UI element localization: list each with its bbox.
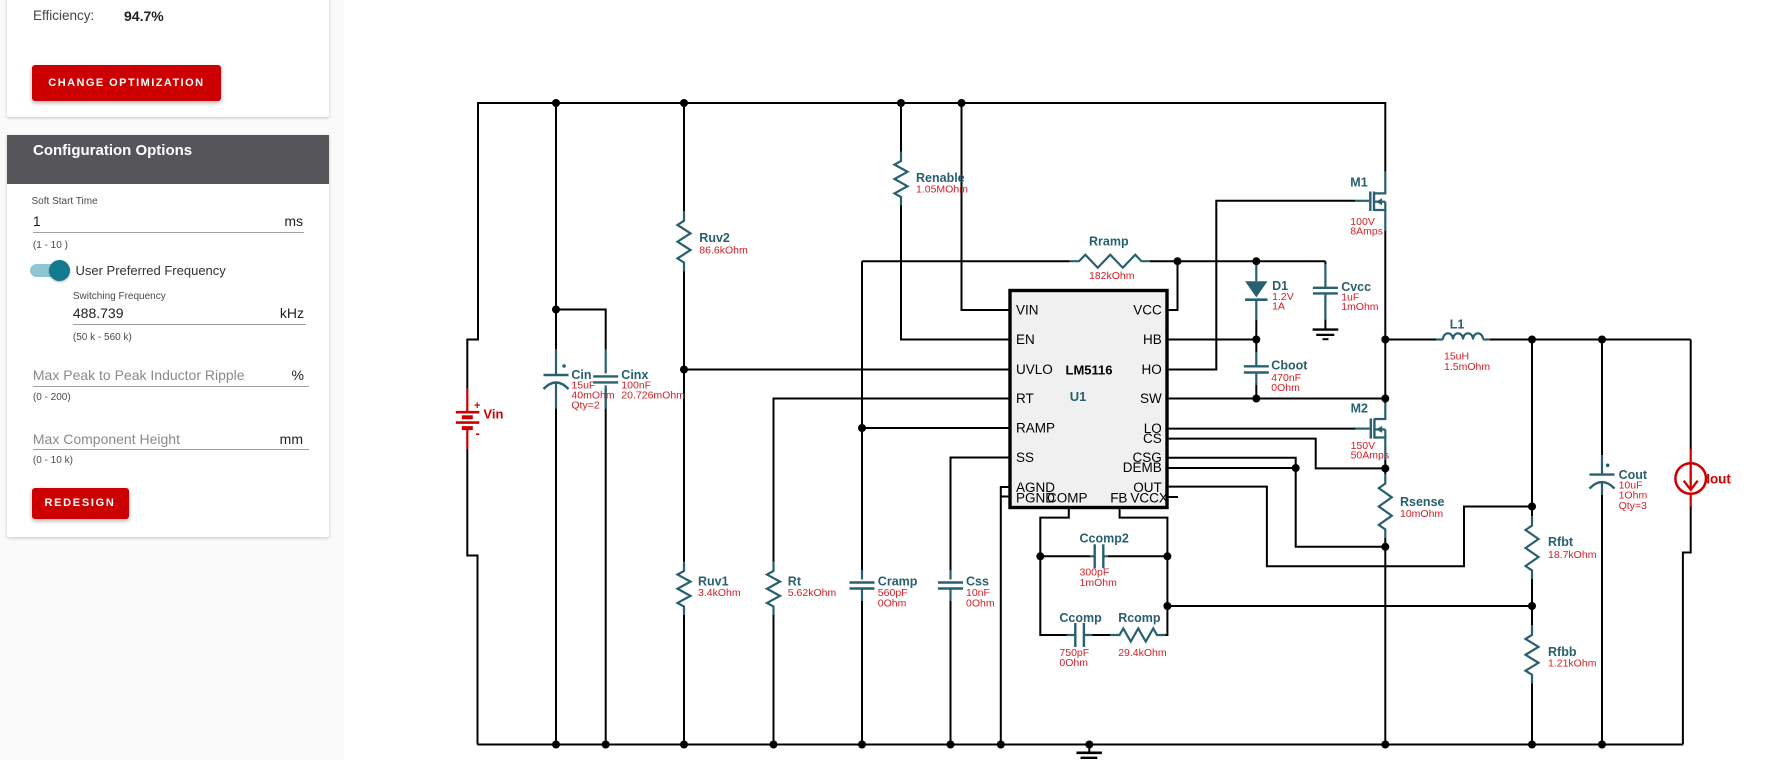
- transistor M1 (high-side NMOS): [1375, 172, 1386, 194]
- svg-text:-: -: [476, 426, 480, 441]
- wire: Cvcc stem: [1324, 261, 1326, 266]
- junction Vin rail / VIN pin: [958, 99, 966, 107]
- capacitor Ccomp2: [1090, 555, 1095, 557]
- resistor Rfbt: [1526, 516, 1539, 579]
- wire: FB pin down-right: [1120, 508, 1168, 607]
- wire: left rail below Vin to ground rail: [467, 449, 477, 745]
- wire: CS net: [1167, 439, 1385, 469]
- wire: Rfbb bottom: [1531, 683, 1533, 744]
- svg-text:Cboot: Cboot: [1271, 359, 1308, 373]
- transistor M2 (low-side NMOS): [1374, 403, 1385, 419]
- svg-text:DEMB: DEMB: [1123, 460, 1162, 475]
- resistor Rsense: [1379, 474, 1392, 538]
- junction Vin rail / Renable: [897, 99, 905, 107]
- wire: CS node to Rsense: [1384, 468, 1386, 474]
- resistor Ruv1: [678, 562, 691, 616]
- svg-text:1.05MOhm: 1.05MOhm: [916, 184, 968, 196]
- capacitor Ccomp: [1067, 634, 1076, 636]
- svg-text:M2: M2: [1351, 401, 1368, 415]
- load Iout (current source): [1690, 449, 1692, 464]
- wire: COMP pin down-left: [1040, 508, 1069, 636]
- wire: Rfbt bottom / Rfbb top: [1531, 579, 1533, 625]
- junction gnd rail / Cin: [552, 741, 560, 749]
- wire: Vin top rail + left rail: [467, 103, 1385, 389]
- junction FB / Rcomp: [1163, 602, 1171, 610]
- svg-text:1.21kOhm: 1.21kOhm: [1548, 658, 1597, 670]
- svg-text:COMP: COMP: [1047, 491, 1088, 506]
- wire: Vout node to SW node (M2 drain): [1384, 340, 1386, 399]
- junction HB node: [1252, 336, 1260, 344]
- wire: Vout rail left of L1: [1385, 339, 1436, 341]
- svg-text:Iout: Iout: [1706, 472, 1731, 487]
- svg-text:20.726mOhm: 20.726mOhm: [621, 390, 685, 402]
- wire: bottom ground rail: [478, 744, 1683, 746]
- wire: Ccomp to Rcomp link: [1093, 634, 1111, 636]
- wire: Cinx branch jog: [556, 310, 606, 350]
- capacitor Cboot: [1255, 352, 1257, 366]
- diode D1: [1255, 261, 1257, 281]
- svg-text:Rsense: Rsense: [1400, 495, 1445, 509]
- wire: RT row + Rt branch: [774, 399, 1011, 562]
- svg-text:VCC: VCC: [1133, 302, 1162, 317]
- svg-text:EN: EN: [1016, 332, 1035, 347]
- wire: SS row + Css branch: [951, 458, 1011, 571]
- junction gnd rail / Css: [947, 741, 955, 749]
- svg-text:Vin: Vin: [483, 407, 503, 422]
- resistor Renable: [895, 152, 908, 206]
- wire: Iout branch bottom: [1683, 506, 1691, 745]
- efficiency card: [7, 0, 329, 117]
- wire: Ruv2/Ruv1 branch: [683, 103, 685, 211]
- svg-text:HO: HO: [1142, 362, 1162, 377]
- wire: Renable branch + EN row: [900, 103, 902, 152]
- svg-text:1mOhm: 1mOhm: [1080, 577, 1118, 589]
- junction gnd rail / Cinx: [602, 741, 610, 749]
- svg-text:RAMP: RAMP: [1016, 420, 1055, 435]
- capacitor Cin (polarized): [555, 350, 557, 375]
- svg-text:Ruv2: Ruv2: [699, 231, 730, 245]
- wire: Rfbt top vertical: [1531, 340, 1533, 517]
- resistor Rramp: [1070, 255, 1151, 268]
- wire: DEMB net: [1167, 467, 1296, 469]
- svg-text:Qty=3: Qty=3: [1619, 500, 1647, 512]
- wire: D1 cathode to HB node: [1255, 320, 1257, 340]
- junction Vin rail / Cin: [552, 99, 560, 107]
- svg-text:1A: 1A: [1272, 301, 1285, 313]
- svg-text:29.4kOhm: 29.4kOhm: [1118, 647, 1167, 659]
- junction FB / Rfbt / Rfbb: [1528, 602, 1536, 610]
- junction gnd rail / Rt: [770, 741, 778, 749]
- svg-text:RT: RT: [1016, 391, 1034, 406]
- wire: Cin branch: [555, 103, 557, 350]
- svg-text:VCCX: VCCX: [1130, 491, 1168, 506]
- wire: VCCX stub: [1167, 496, 1178, 498]
- svg-text:SS: SS: [1016, 450, 1034, 465]
- capacitor Css: [949, 570, 951, 580]
- junction Cin / Cinx: [552, 306, 560, 314]
- wire: Rramp rail: [862, 260, 1070, 262]
- junction gnd rail / Cout: [1598, 741, 1606, 749]
- svg-text:1mOhm: 1mOhm: [1341, 301, 1379, 313]
- capacitor Cvcc: [1324, 264, 1326, 288]
- svg-text:182kOhm: 182kOhm: [1089, 270, 1135, 282]
- capacitor Cinx: [605, 350, 607, 374]
- svg-text:18.7kOhm: 18.7kOhm: [1548, 549, 1597, 561]
- IC U1 LM5116: [1010, 291, 1167, 508]
- junction gnd rail / ground: [1085, 741, 1093, 749]
- junction FB / Ccomp2 right: [1163, 552, 1171, 560]
- wire: Cout column: [1601, 340, 1603, 456]
- svg-text:UVLO: UVLO: [1016, 362, 1053, 377]
- wire: SW row: [1167, 398, 1385, 400]
- wire: OUT net: [1167, 487, 1532, 567]
- svg-text:Rcomp: Rcomp: [1118, 611, 1161, 625]
- svg-text:Ccomp: Ccomp: [1059, 611, 1102, 625]
- svg-text:Rfbb: Rfbb: [1548, 645, 1577, 659]
- junction SW / Cboot: [1252, 395, 1260, 403]
- wire: HB row: [1167, 339, 1256, 341]
- wire: Cboot to SW node: [1255, 385, 1257, 399]
- svg-text:+: +: [474, 400, 480, 412]
- resistor Rcomp: [1110, 629, 1166, 642]
- wire: Rsense bottom to ground rail: [1384, 538, 1386, 745]
- svg-text:L1: L1: [1450, 317, 1465, 331]
- inductor L1: [1436, 338, 1443, 340]
- configuration options card: [7, 135, 329, 537]
- wire: Vout rail right of L1: [1490, 339, 1691, 341]
- wire: CSG/DEMB node to Rsense bottom: [1296, 468, 1386, 547]
- wire: UVLO row: [684, 369, 1010, 371]
- wire: M1 source to Vout node: [1384, 230, 1386, 339]
- svg-text:10mOhm: 10mOhm: [1400, 508, 1443, 520]
- wire: M2 source to CS node: [1384, 460, 1386, 468]
- wire: VCC branch: [1167, 261, 1178, 310]
- junction gnd rail / Rsense branch: [1381, 741, 1389, 749]
- svg-text:3.4kOhm: 3.4kOhm: [698, 587, 741, 599]
- svg-text:HB: HB: [1143, 332, 1162, 347]
- junction Vout / Rfbt: [1528, 336, 1536, 344]
- junction RAMP node: [858, 424, 866, 432]
- junction CSG-DEMB node: [1292, 464, 1300, 472]
- svg-text:1.5mOhm: 1.5mOhm: [1444, 361, 1490, 373]
- svg-text:U1: U1: [1070, 389, 1087, 404]
- junction Vout node / M1 source: [1381, 336, 1389, 344]
- junction Vout / Cout: [1598, 336, 1606, 344]
- wire: Rramp left vertical + Cramp branch: [861, 261, 863, 570]
- svg-text:5.62kOhm: 5.62kOhm: [788, 587, 837, 599]
- wire: HB node to Cboot: [1255, 340, 1257, 353]
- junction SW / M2 drain: [1381, 395, 1389, 403]
- svg-text:SW: SW: [1140, 391, 1162, 406]
- junction UVLO node: [680, 366, 688, 374]
- svg-text:Rramp: Rramp: [1089, 235, 1129, 249]
- wire: LO row to M2 gate: [1167, 428, 1356, 430]
- svg-text:8Amps: 8Amps: [1350, 226, 1383, 238]
- wire: VIN branch: [962, 103, 1011, 310]
- svg-text:Qty=2: Qty=2: [571, 399, 599, 411]
- wire: AGND/PGND bracket to ground: [1001, 487, 1010, 745]
- svg-text:FB: FB: [1110, 491, 1127, 506]
- capacitor Cramp: [861, 570, 863, 580]
- svg-text:M1: M1: [1350, 175, 1367, 189]
- svg-text:VIN: VIN: [1016, 302, 1039, 317]
- junction COMP / Ccomp2 left: [1036, 552, 1044, 560]
- wire: Ccomp2 row: [1040, 555, 1090, 557]
- svg-text:0Ohm: 0Ohm: [966, 598, 995, 610]
- ground under Cvcc: [1313, 328, 1339, 330]
- wire: CSG net: [1167, 458, 1296, 468]
- svg-text:0Ohm: 0Ohm: [878, 598, 907, 610]
- source Vin (battery): [466, 389, 468, 413]
- svg-text:Ccomp2: Ccomp2: [1080, 532, 1129, 546]
- svg-text:Rfbt: Rfbt: [1548, 535, 1574, 549]
- wire: HO to M1 gate: [1167, 201, 1355, 370]
- svg-text:86.6kOhm: 86.6kOhm: [699, 244, 748, 256]
- junction gnd rail / Cramp: [858, 741, 866, 749]
- svg-text:LM5116: LM5116: [1066, 363, 1113, 378]
- svg-text:CS: CS: [1143, 431, 1162, 446]
- wire: Rcomp right corner up: [1166, 606, 1168, 635]
- resistor Rfbb: [1526, 625, 1539, 683]
- wire: Iout branch top: [1690, 340, 1692, 450]
- junction CS node / Rsense top: [1381, 464, 1389, 472]
- svg-text:0Ohm: 0Ohm: [1059, 657, 1088, 669]
- resistor Ruv2: [678, 211, 691, 271]
- junction gnd rail / Ruv1: [680, 741, 688, 749]
- toggle: [30, 264, 67, 277]
- ground (main): [1088, 745, 1090, 753]
- svg-text:0Ohm: 0Ohm: [1271, 382, 1300, 394]
- wire: RAMP row: [862, 427, 1010, 429]
- junction Vin rail / Ruv2: [680, 99, 688, 107]
- junction VCC node: [1174, 257, 1182, 265]
- junction gnd rail / PGND: [997, 741, 1005, 749]
- resistor Rt: [767, 562, 780, 616]
- capacitor Cout (polarized): [1601, 455, 1603, 475]
- junction Rsense bottom: [1381, 543, 1389, 551]
- svg-text:50Amps: 50Amps: [1351, 450, 1390, 462]
- wire: FB row to Rfbt/Rfbb junction: [1167, 605, 1532, 607]
- junction gnd rail / Rfbb: [1528, 741, 1536, 749]
- junction VCC rail / D1: [1252, 257, 1260, 265]
- junction OUT / Rfbt top: [1528, 503, 1536, 511]
